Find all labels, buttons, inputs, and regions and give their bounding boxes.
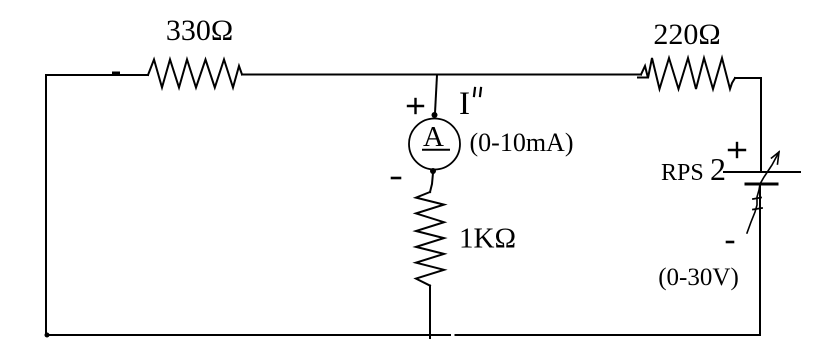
wire ammeter branch vertical [435, 75, 437, 113]
svg-text:(0-10mA): (0-10mA) [470, 128, 574, 157]
plus sign ammeter [408, 105, 423, 107]
svg-text:330Ω: 330Ω [166, 14, 233, 47]
svg-text:1KΩ: 1KΩ [459, 223, 516, 255]
node dash on top-left wire [112, 72, 120, 76]
battery variable arrow diagonal [747, 152, 779, 233]
wire ammeter to resistor [430, 173, 433, 192]
svg-text:A: A [423, 121, 444, 153]
wire top right corner [735, 78, 761, 172]
ammeter A underline [423, 149, 449, 151]
wire bottom right horizontal [456, 334, 761, 336]
svg-text:2: 2 [710, 151, 726, 187]
svg-text:(0-30V): (0-30V) [658, 264, 739, 291]
wire left vertical [45, 75, 47, 335]
junction at ammeter bottom [430, 168, 436, 174]
minus sign ammeter [392, 177, 400, 180]
quote marks of I'' [474, 88, 475, 96]
battery arrow tick 1 [753, 208, 762, 210]
battery arrowhead [772, 152, 780, 164]
resistor R2 220ohm stub double line [638, 77, 648, 79]
resistor R2 220ohm zigzag [641, 58, 735, 89]
battery V1 short plate [746, 183, 777, 186]
junction bottom-left corner [45, 333, 50, 338]
junction at ammeter top [432, 112, 438, 118]
ammeter U1 circle [409, 119, 460, 170]
battery arrow tick 2 [753, 198, 761, 200]
minus sign RPS [727, 241, 733, 244]
wire top middle horizontal [242, 74, 641, 76]
wire bottom left horizontal [46, 334, 450, 336]
resistor R1 330ohm zigzag [148, 60, 242, 88]
wire 1K resistor to bottom [429, 286, 431, 338]
wire battery to bottom vertical [759, 184, 761, 335]
svg-text:220Ω: 220Ω [653, 18, 720, 51]
plus sign RPS [729, 149, 745, 151]
battery V1 long plate [724, 171, 800, 173]
wire top left horizontal [46, 74, 148, 76]
svg-text:I: I [459, 86, 470, 122]
resistor R3 1Kohm zigzag [416, 192, 444, 286]
svg-text:RPS: RPS [661, 160, 704, 186]
